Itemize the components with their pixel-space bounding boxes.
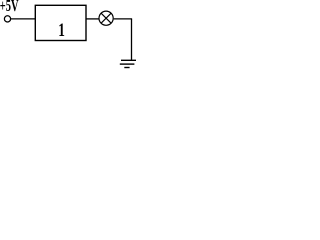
input terminal (open circle) bbox=[4, 16, 10, 22]
wire corner down to ground bbox=[131, 19, 133, 60]
wire terminal to box U1 bbox=[11, 18, 36, 20]
wire box U1 to lamp bbox=[86, 18, 99, 20]
svg-text:+5V: +5V bbox=[0, 0, 19, 16]
box U1 bbox=[35, 5, 86, 40]
lamp DS1 (circle with X) bbox=[99, 11, 113, 25]
svg-text:1: 1 bbox=[58, 19, 65, 41]
wire lamp to corner bbox=[114, 18, 132, 20]
ground symbol bbox=[120, 60, 137, 67]
